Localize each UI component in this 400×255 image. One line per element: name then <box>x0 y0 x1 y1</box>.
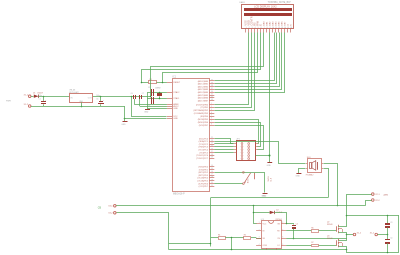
svg-text:26: 26 <box>211 148 213 150</box>
svg-text:GND: GND <box>296 176 301 178</box>
svg-text:(ADC4)PA4: (ADC4)PA4 <box>198 91 209 94</box>
svg-text:(MOSI)PB5: (MOSI)PB5 <box>198 119 209 121</box>
svg-text:19: 19 <box>211 179 213 181</box>
svg-text:14: 14 <box>284 27 286 29</box>
svg-text:S1: S1 <box>245 181 247 183</box>
svg-text:RESET: RESET <box>173 82 180 84</box>
svg-text:(TOSC1)PC6: (TOSC1)PC6 <box>196 155 209 157</box>
svg-text:22: 22 <box>211 137 213 139</box>
svg-text:100u: 100u <box>39 95 43 97</box>
svg-text:C7: C7 <box>142 93 144 95</box>
svg-text:C5: C5 <box>96 99 98 101</box>
svg-text:14: 14 <box>211 165 213 167</box>
svg-text:27: 27 <box>211 151 213 153</box>
svg-text:34: 34 <box>211 96 213 98</box>
svg-text:GND: GND <box>267 165 272 167</box>
svg-text:XTAL2: XTAL2 <box>173 91 180 94</box>
svg-text:(SCL)PC0: (SCL)PC0 <box>199 138 209 140</box>
svg-text:(OC1A)PD5: (OC1A)PD5 <box>197 180 209 183</box>
svg-text:28: 28 <box>211 154 213 156</box>
svg-text:(SCK)PB7: (SCK)PB7 <box>199 125 209 127</box>
svg-text:4: 4 <box>255 27 256 29</box>
svg-text:GND: GND <box>262 195 267 197</box>
svg-text:2: 2 <box>259 229 260 231</box>
svg-text:15: 15 <box>211 168 213 170</box>
svg-text:FAB1: FAB1 <box>240 1 246 4</box>
svg-text:IC3: IC3 <box>261 219 264 221</box>
svg-text:24: 24 <box>211 143 213 145</box>
svg-text:16: 16 <box>211 171 213 173</box>
svg-text:16MHZ: 16MHZ <box>155 88 161 90</box>
svg-text:MEGA16-P: MEGA16-P <box>173 193 185 196</box>
svg-text:23: 23 <box>211 140 213 142</box>
svg-text:C4: C4 <box>390 238 392 240</box>
svg-text:15: 15 <box>287 27 289 29</box>
svg-text:10: 10 <box>272 27 274 29</box>
svg-text:6: 6 <box>261 27 262 29</box>
svg-text:11: 11 <box>275 27 277 29</box>
svg-text:78L05: 78L05 <box>69 89 76 91</box>
svg-text:13: 13 <box>281 27 283 29</box>
svg-text:R4: R4 <box>218 235 220 237</box>
svg-text:40: 40 <box>211 80 213 82</box>
svg-text:2: 2 <box>249 27 250 29</box>
svg-text:29: 29 <box>211 157 213 159</box>
svg-text:(XCK/T0)PB0: (XCK/T0)PB0 <box>196 104 209 106</box>
svg-text:(INT2/AIN0)PB2: (INT2/AIN0)PB2 <box>194 109 209 112</box>
svg-text:(ADC5)PA5: (ADC5)PA5 <box>198 94 209 97</box>
svg-text:(OC0/AIN1)PB3: (OC0/AIN1)PB3 <box>194 112 209 115</box>
svg-text:RS: RS <box>255 22 257 26</box>
svg-text:(INT0)PD2: (INT0)PD2 <box>198 172 208 174</box>
svg-text:(OC1B)PD4: (OC1B)PD4 <box>197 178 209 180</box>
svg-text:(ADC2)PA2: (ADC2)PA2 <box>198 85 209 88</box>
svg-text:R5: R5 <box>244 235 246 237</box>
svg-text:TOSHIBA_NOTE_B07: TOSHIBA_NOTE_B07 <box>268 1 292 4</box>
svg-text:17: 17 <box>211 174 213 176</box>
svg-text:25: 25 <box>211 145 213 147</box>
svg-text:21: 21 <box>211 185 213 187</box>
svg-text:(ADC0)PA0: (ADC0)PA0 <box>198 80 209 83</box>
svg-text:2: 2 <box>211 106 212 108</box>
svg-text:(TMS)PC3: (TMS)PC3 <box>199 147 209 149</box>
svg-text:R7: R7 <box>311 242 313 244</box>
svg-text:C2: C2 <box>296 224 298 226</box>
svg-text:(ICP1)PD6: (ICP1)PD6 <box>198 183 209 185</box>
svg-text:4: 4 <box>259 244 260 246</box>
svg-text:R6: R6 <box>311 228 313 230</box>
svg-text:XTAL1: XTAL1 <box>173 97 180 100</box>
svg-text:3: 3 <box>252 27 253 29</box>
svg-text:IR2104: IR2104 <box>276 219 282 221</box>
svg-text:(RXD)PD0: (RXD)PD0 <box>199 166 209 168</box>
svg-text:4: 4 <box>211 112 212 114</box>
svg-text:18: 18 <box>211 176 213 178</box>
svg-text:LCD DISPLAY 16X2: LCD DISPLAY 16X2 <box>254 5 277 8</box>
svg-text:100u: 100u <box>96 95 100 97</box>
svg-text:GND: GND <box>144 112 149 114</box>
svg-text:(ADC7)PA7: (ADC7)PA7 <box>198 99 209 102</box>
svg-text:(OC2)PD7: (OC2)PD7 <box>199 186 209 188</box>
svg-text:(T1)PB1: (T1)PB1 <box>201 107 209 109</box>
svg-text:D1: D1 <box>33 92 35 94</box>
svg-text:1: 1 <box>211 103 212 105</box>
svg-text:F/CMB12: F/CMB12 <box>306 175 314 177</box>
svg-text:GND: GND <box>121 124 126 126</box>
svg-text:C2: C2 <box>148 87 150 89</box>
svg-text:(MISO)PB6: (MISO)PB6 <box>198 122 209 124</box>
svg-text:16: 16 <box>290 27 292 29</box>
svg-text:8: 8 <box>267 27 268 29</box>
svg-text:7: 7 <box>264 27 265 29</box>
svg-text:GND: GND <box>173 118 178 120</box>
svg-text:GND: GND <box>173 108 178 110</box>
svg-text:(SDA)PC1: (SDA)PC1 <box>199 140 209 143</box>
svg-text:9: 9 <box>270 27 271 29</box>
svg-text:SG1: SG1 <box>307 157 311 159</box>
svg-text:(ADC6)PA6: (ADC6)PA6 <box>198 97 209 100</box>
svg-text:C6: C6 <box>131 93 133 95</box>
svg-text:1N4007: 1N4007 <box>37 92 43 94</box>
svg-text:(ADC1)PA1: (ADC1)PA1 <box>198 83 209 86</box>
svg-text:3: 3 <box>259 237 260 239</box>
svg-text:CONTR: CONTR <box>250 16 254 25</box>
svg-text:35: 35 <box>211 94 213 96</box>
svg-text:6: 6 <box>211 118 212 120</box>
svg-text:(SS)PB4: (SS)PB4 <box>200 116 209 118</box>
svg-text:1: 1 <box>259 222 260 224</box>
svg-text:(TDI)PC5: (TDI)PC5 <box>200 152 209 154</box>
svg-text:39: 39 <box>211 82 213 84</box>
svg-text:5: 5 <box>258 27 259 29</box>
svg-text:IRF540: IRF540 <box>327 238 333 240</box>
svg-text:38: 38 <box>211 85 213 87</box>
svg-text:(ADC3)PA3: (ADC3)PA3 <box>198 88 209 91</box>
svg-text:(TOSC2)PC7: (TOSC2)PC7 <box>196 158 209 160</box>
svg-text:12: 12 <box>278 27 280 29</box>
svg-text:20: 20 <box>211 182 213 184</box>
svg-text:1: 1 <box>246 27 247 29</box>
svg-text:(INT1)PD3: (INT1)PD3 <box>198 175 208 177</box>
svg-text:33: 33 <box>211 99 213 101</box>
svg-text:(TDO)PC4: (TDO)PC4 <box>199 150 209 152</box>
svg-text:7: 7 <box>211 121 212 123</box>
svg-text:5: 5 <box>211 115 212 117</box>
svg-text:3: 3 <box>211 109 212 111</box>
svg-text:220V: 220V <box>384 194 389 196</box>
svg-text:37: 37 <box>211 88 213 90</box>
svg-text:36: 36 <box>211 91 213 93</box>
svg-text:8: 8 <box>211 124 212 126</box>
svg-text:C1: C1 <box>39 99 41 101</box>
svg-text:C3: C3 <box>390 222 392 224</box>
svg-text:IRF540: IRF540 <box>327 224 333 226</box>
svg-text:PWR: PWR <box>6 100 11 102</box>
svg-text:COM: COM <box>263 245 268 247</box>
svg-text:CB: CB <box>98 208 102 210</box>
svg-text:(TCK)PC2: (TCK)PC2 <box>199 144 209 146</box>
svg-text:C3: C3 <box>148 105 150 107</box>
svg-text:(TXD)PD1: (TXD)PD1 <box>199 169 209 171</box>
